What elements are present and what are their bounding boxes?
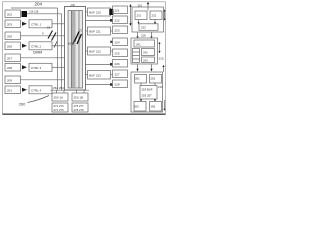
svg-text:209: 209 [7,78,12,82]
arrow c3 br [154,99,156,101]
box c2 top [134,40,155,47]
arrow A2 [22,22,27,26]
box host B4 [5,42,21,50]
cluster1 outer [132,7,164,32]
wire row2 [52,23,65,25]
wire K8 feed [86,84,113,86]
svg-text:18: 18 [68,42,72,46]
svg-text:274 275: 274 275 [54,108,65,112]
svg-text:252 254: 252 254 [53,86,64,90]
box c3 center [140,86,157,100]
box mem R2 [72,103,88,112]
arrow A8 [22,88,27,92]
box host B3 [5,32,21,40]
box mem L1 [52,93,68,101]
svg-text:222: 222 [115,18,120,22]
box col K8 [113,80,128,88]
wire mem l1 [56,90,58,93]
box col K1 [113,6,128,14]
svg-text:243: 243 [143,59,148,63]
wire R2 out [111,30,113,32]
box row R4 [88,71,111,80]
stack line3 [133,58,140,60]
box host B6 [5,64,21,72]
svg-text:216 218: 216 218 [29,9,39,13]
memory module inner line [78,11,80,89]
svg-text:253 BUF: 253 BUF [142,88,153,92]
arrow c1 b [154,20,156,24]
wire mem r1 [76,90,78,93]
wire stub R4 [86,74,88,76]
svg-text:223: 223 [115,28,120,32]
wire row1 [27,13,62,15]
svg-text:262: 262 [151,77,156,81]
wire row4 [52,45,65,47]
svg-text:226: 226 [115,62,120,66]
box c1 TR [150,11,162,20]
box mem L2 [52,103,68,112]
wire row6 [52,66,65,68]
wire bottom bus [51,89,90,91]
box mem R1 [72,93,88,101]
stack line2 [133,55,140,57]
memory module band [72,11,76,88]
wire R1 out [113,11,116,13]
box col K6 [113,60,128,68]
black square D2 [109,9,113,15]
cluster2 outer [131,38,158,64]
svg-text:233: 233 [141,26,146,30]
box c1 TL [135,11,147,20]
arrow c1 to c2 b [151,32,153,38]
svg-text:241: 241 [136,42,141,46]
arrow dbl c2 right [159,43,161,52]
svg-text:203: 203 [7,22,12,26]
wire stub R3 [86,50,88,52]
box host B8 [5,86,21,94]
svg-text:218: 218 [141,34,146,38]
wire mem r2 [83,90,85,93]
svg-text:72: 72 [79,29,83,33]
svg-text:210: 210 [138,4,143,8]
arrow dbl right [164,11,166,20]
svg-text:CTRL 1: CTRL 1 [31,22,42,26]
wire bus v1 [57,8,59,90]
svg-text:BUF 210: BUF 210 [89,11,101,15]
arrow down right c3 [164,100,166,110]
wire R3 out [111,50,113,52]
wire row3 [21,35,65,37]
memory module inner [68,11,83,89]
bus slash C3 [73,38,77,45]
cluster3 outer [131,72,163,112]
svg-text:207: 207 [7,56,12,60]
svg-text:278 279: 278 279 [74,108,85,112]
box c3 BL [134,102,146,112]
wire stub R2 [86,30,88,32]
wire c3 tr [154,83,156,86]
box host B5 [5,54,21,62]
wire bus v2 [61,14,63,90]
memory module outer [65,7,86,91]
svg-text:250 1B: 250 1B [74,95,84,99]
arrow A4 [22,44,27,48]
wire mem l2 [63,90,65,93]
bus slash C1 [75,32,80,42]
svg-text:215: 215 [159,57,164,61]
svg-text:260: 260 [19,103,25,107]
box col K3 [113,26,128,34]
box wide W6 [29,63,52,71]
svg-text:265: 265 [134,105,139,109]
tick K4 [110,41,112,43]
bus slash S3b [52,33,57,41]
svg-text:216: 216 [158,85,163,89]
arrow A6 [22,65,27,69]
arrow c2 to c3 a [137,65,139,70]
svg-text:CTRL 2: CTRL 2 [31,44,42,48]
wire mid bus2 [86,64,113,66]
box host B7 [5,76,21,84]
svg-text:221: 221 [115,8,120,12]
box row R3 [88,47,111,55]
arrow up right c3 [163,66,165,72]
svg-text:225: 225 [115,51,120,55]
svg-text:208: 208 [7,66,12,70]
svg-text:BUF 212: BUF 212 [89,50,101,54]
box c3 BR [150,102,162,112]
svg-text:242: 242 [143,51,148,55]
wire c3 tl [140,83,142,86]
box c2 left stack [133,49,140,63]
wire top bus [11,7,58,9]
svg-text:DIMM: DIMM [33,51,42,55]
svg-text:261: 261 [135,77,140,81]
svg-text:BUF 211: BUF 211 [89,30,101,34]
box col K7 [113,70,128,78]
stack line1 [133,51,140,53]
svg-text:232: 232 [152,14,157,18]
leader 260 [28,96,50,103]
svg-text:201: 201 [7,88,12,92]
svg-text:18: 18 [47,26,51,30]
svg-text:250 1A: 250 1A [54,95,64,99]
svg-text:224: 224 [115,40,120,44]
box row R1 [88,8,111,16]
svg-text:CTRL 4: CTRL 4 [31,88,42,92]
box col K2 [113,16,128,24]
arrow up U1 [130,6,132,24]
svg-text:CTRL 3: CTRL 3 [31,66,42,70]
box c2 inner1 [142,49,155,56]
svg-text:231: 231 [137,14,142,18]
box wide W2 [29,20,52,28]
arrow c1 to c2 a [137,32,139,38]
svg-text:205: 205 [7,34,12,38]
box host B1 [5,10,21,18]
box c3 TL [135,75,147,84]
bus slash S3a [48,31,53,39]
wire row7 [21,79,65,81]
svg-text:228: 228 [115,82,120,86]
box c1 bottom [139,24,158,31]
svg-text:266: 266 [151,105,156,109]
wire R4 out [111,74,113,76]
svg-text:206: 206 [7,44,12,48]
wire stub R1 [86,11,88,13]
arrow c3 bl [140,99,142,101]
svg-text:202: 202 [7,12,12,16]
svg-text:227: 227 [115,72,120,76]
wire mid bus1 [86,20,113,22]
arrow c2 to c3 b [151,65,153,70]
bus slash C2 [77,34,82,44]
frame border [3,2,166,114]
bus slash S4 [54,42,57,48]
box col K4 [113,38,128,46]
arrow c1 a [138,20,140,24]
arrow up U2 [147,4,149,11]
box wide W8 [29,86,52,94]
box row R2 [88,27,111,35]
svg-text:255 257: 255 257 [142,94,153,98]
wire row5 [21,57,65,59]
svg-text:204: 204 [35,2,43,7]
box wide W4 [29,42,52,50]
black square D1 [22,11,28,17]
box col K5 [113,49,128,57]
svg-text:BUF 213: BUF 213 [89,73,101,77]
box host B2 [5,20,21,28]
frame bottom line [3,113,166,115]
box c2 inner2 [142,57,155,63]
box c3 TR [150,75,162,84]
